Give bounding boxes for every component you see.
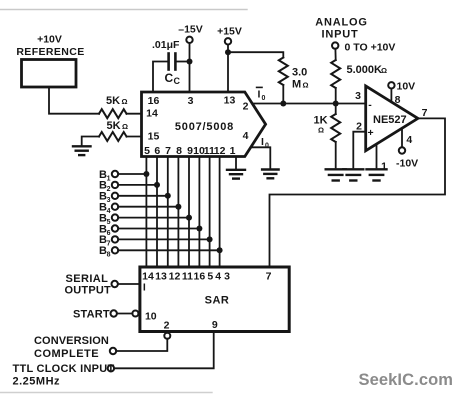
wire bit line 2 (DAC pin to SAR): [156, 157, 158, 268]
wire bit line 1 (DAC pin to SAR): [145, 157, 147, 268]
wire R2 to ground: [82, 137, 99, 146]
terminal analog input: [332, 42, 338, 48]
svg-text:13: 13: [224, 94, 236, 106]
svg-text:6: 6: [107, 230, 111, 237]
value label 5K ohm (R1): [106, 95, 128, 107]
svg-text:0: 0: [262, 95, 266, 102]
input terminal B7: [99, 234, 111, 248]
svg-text:5007/5008: 5007/5008: [175, 121, 234, 133]
svg-text:.01μF: .01μF: [152, 39, 180, 51]
wire -15V to pin 3: [189, 43, 191, 92]
svg-text:COMPLETE: COMPLETE: [34, 348, 99, 360]
wire NE527 pin 2 to ground: [353, 132, 365, 168]
wire bit line 8 (DAC pin to SAR): [219, 157, 221, 268]
svg-text:+: +: [368, 127, 374, 139]
svg-text:3: 3: [188, 95, 194, 107]
resistor R5 1K ohm: [335, 104, 337, 115]
svg-text:4: 4: [107, 208, 111, 215]
wire cap to pin 16: [153, 62, 167, 93]
wire bit line 3 (DAC pin to SAR): [167, 157, 169, 268]
svg-text:7: 7: [165, 145, 171, 157]
svg-text:1: 1: [107, 175, 111, 182]
wire NE527 pin 4 to -10V: [401, 129, 403, 148]
svg-text:14: 14: [146, 108, 158, 120]
value label 1K ohm: [314, 115, 328, 135]
resistor R1 5K ohm: [99, 109, 127, 118]
wire start to pin 10: [117, 313, 132, 315]
svg-text:INPUT: INPUT: [322, 28, 359, 40]
svg-text:ANALOG: ANALOG: [315, 17, 367, 29]
svg-text:3: 3: [107, 197, 111, 204]
svg-text:7: 7: [107, 241, 111, 248]
ground (R5): [326, 168, 346, 170]
svg-text:5K: 5K: [107, 120, 121, 132]
svg-text:SERIAL: SERIAL: [66, 273, 109, 285]
svg-text:11: 11: [182, 271, 193, 283]
wire bit line 7 (DAC pin to SAR): [209, 157, 211, 268]
ground (Io): [262, 168, 279, 170]
wire R3 to node: [282, 85, 284, 104]
svg-text:5: 5: [207, 271, 213, 283]
svg-text:1: 1: [381, 160, 387, 172]
svg-text:REFERENCE: REFERENCE: [16, 46, 84, 58]
svg-text:SAR: SAR: [205, 295, 230, 307]
node B3 junction: [165, 193, 171, 199]
svg-text:12: 12: [169, 271, 181, 283]
wire Io-bar net: [253, 103, 366, 105]
+10V reference box: [22, 60, 77, 88]
resistor R4 5.000K ohm: [331, 60, 340, 88]
ground (DAC pin 1): [227, 169, 245, 171]
svg-text:–15V: –15V: [178, 24, 203, 36]
comparator U2 NE527 body: [366, 86, 418, 151]
node B1 junction: [143, 171, 149, 177]
node B2 junction: [154, 182, 160, 188]
svg-text:5: 5: [144, 145, 150, 157]
svg-text:I: I: [261, 136, 264, 148]
svg-text:START: START: [73, 308, 110, 320]
scan border bottom: [0, 392, 212, 394]
wire NE527 pin 1 to ground: [376, 144, 378, 168]
svg-text:12: 12: [214, 145, 226, 157]
capacitor CC 0.01uF plates: [167, 54, 170, 70]
wire B4 to bit line: [118, 206, 178, 208]
svg-text:10V: 10V: [397, 80, 416, 92]
input terminal B4: [99, 202, 111, 216]
node capacitor junction: [187, 59, 193, 65]
svg-text:C: C: [174, 76, 181, 86]
svg-text:0: 0: [265, 142, 269, 149]
wire B2 to bit line: [118, 184, 157, 186]
svg-text:I: I: [143, 282, 146, 294]
label CONVERSION COMPLETE: [34, 335, 109, 360]
svg-text:8: 8: [176, 145, 182, 157]
svg-text:7: 7: [422, 107, 428, 119]
node B4 junction: [175, 204, 181, 210]
resistor R3 3.0 Mohm: [279, 58, 288, 86]
label Io-bar: [258, 88, 266, 102]
svg-text:4: 4: [406, 134, 412, 146]
terminal conversion complete: [110, 348, 116, 354]
wire reference to R1: [49, 87, 99, 114]
wire B6 to bit line: [118, 228, 199, 230]
svg-text:0 TO +10V: 0 TO +10V: [345, 41, 396, 53]
svg-text:2.25MHz: 2.25MHz: [13, 376, 61, 388]
svg-text:8: 8: [107, 252, 111, 259]
wire B7 to bit line: [118, 238, 209, 240]
node R3 junction: [280, 101, 286, 107]
wire conversion complete to pin 2: [116, 339, 167, 351]
svg-text:SeekIC.com: SeekIC.com: [359, 371, 454, 389]
svg-text:CONVERSION: CONVERSION: [34, 335, 109, 347]
label SERIAL OUTPUT: [65, 273, 111, 296]
wire +15V to pin 13: [227, 45, 229, 93]
svg-text:2: 2: [164, 319, 170, 331]
svg-text:Ω: Ω: [122, 97, 128, 106]
label ANALOG INPUT: [315, 17, 367, 41]
input terminal B5: [99, 212, 111, 226]
wire NE527 pin 8 to +10V: [390, 89, 392, 103]
wire B8 to bit line: [118, 249, 219, 251]
node B6 junction: [196, 226, 202, 232]
svg-text:2: 2: [107, 186, 111, 193]
terminal +15V: [225, 38, 231, 44]
inverting bubble pin 10: [132, 311, 138, 317]
svg-text:Ω: Ω: [318, 126, 324, 135]
value label 5K ohm (R2): [107, 120, 129, 132]
svg-text:13: 13: [155, 271, 167, 283]
svg-text:OUTPUT: OUTPUT: [65, 284, 111, 296]
svg-text:+10V: +10V: [37, 34, 62, 46]
svg-text:Ω: Ω: [303, 81, 309, 90]
terminal 10V: [388, 82, 394, 88]
input terminal B8: [99, 245, 111, 259]
wire R1 to pin 14: [127, 113, 142, 115]
ground (NE527 pin 1): [367, 168, 387, 170]
node B5 junction: [186, 215, 192, 221]
wire bit line 6 (DAC pin to SAR): [198, 157, 200, 268]
wire Io to ground: [251, 147, 270, 169]
wire bit line 5 (DAC pin to SAR): [188, 157, 190, 268]
input terminal B3: [99, 191, 111, 205]
ground (NE527 pin 2): [343, 168, 363, 170]
svg-text:4: 4: [243, 130, 249, 142]
wire R4 to node: [335, 88, 337, 104]
svg-text:9: 9: [212, 319, 218, 331]
wire TTL clock to pin 9: [114, 332, 214, 369]
svg-text:2: 2: [243, 100, 249, 112]
terminal start: [111, 310, 117, 316]
wire bit line 4 (DAC pin to SAR): [177, 157, 179, 268]
node B8 junction: [217, 247, 223, 253]
svg-text:5K: 5K: [106, 95, 120, 107]
svg-text:7: 7: [266, 271, 272, 283]
wire B3 to bit line: [118, 195, 168, 197]
terminal -15V: [186, 37, 192, 43]
ground (left, R2): [73, 145, 91, 147]
svg-text:C: C: [165, 71, 174, 85]
input terminal B6: [99, 223, 111, 237]
wire DAC pin 1 to ground: [235, 157, 237, 170]
svg-text:5: 5: [107, 219, 111, 226]
wire analog input to R4: [334, 49, 336, 60]
svg-text:5.000K: 5.000K: [347, 64, 383, 76]
svg-text:4: 4: [215, 271, 221, 283]
node +15V tee: [225, 49, 231, 55]
svg-text:10: 10: [145, 311, 157, 323]
label Io: [261, 136, 269, 150]
svg-text:3: 3: [355, 90, 361, 102]
svg-text:TTL CLOCK INPUT: TTL CLOCK INPUT: [13, 363, 115, 375]
svg-text:16: 16: [148, 95, 160, 107]
node B7 junction: [207, 236, 213, 242]
svg-text:8: 8: [395, 94, 401, 106]
wire R5 to ground: [335, 142, 337, 168]
svg-text:15: 15: [148, 130, 160, 142]
svg-text:3: 3: [224, 271, 230, 283]
DAC U1 5007/5008 body: [142, 92, 266, 157]
svg-text:3.0: 3.0: [292, 67, 307, 79]
input terminal B2: [99, 180, 111, 194]
svg-text:M: M: [292, 79, 301, 91]
terminal TTL clock: [108, 365, 114, 371]
terminal serial output: [112, 281, 118, 287]
svg-text:1: 1: [230, 145, 236, 157]
svg-text:Ω: Ω: [381, 66, 387, 75]
svg-text:I: I: [258, 88, 261, 100]
wire +15V to R3: [228, 52, 283, 57]
svg-text:-10V: -10V: [396, 158, 418, 170]
node R4/R5 junction: [333, 101, 339, 107]
value label 5.000K ohm: [347, 64, 388, 76]
label CC: [165, 71, 181, 86]
wire serial output: [118, 283, 140, 285]
input terminal B1: [99, 169, 111, 183]
wire NE527 output pin 7 to SAR pin 7: [270, 118, 446, 267]
wire B1 to bit line: [118, 173, 146, 175]
value label 3.0 Mohm: [292, 67, 309, 91]
svg-text:+15V: +15V: [217, 26, 242, 38]
inverting bubble pin 2: [164, 333, 170, 339]
svg-text:16: 16: [194, 271, 206, 283]
svg-text:6: 6: [154, 145, 160, 157]
SAR U3 body: [140, 267, 289, 332]
svg-text:-: -: [368, 99, 372, 111]
terminal -10V: [399, 147, 405, 153]
wire R2 to pin 15: [127, 136, 142, 138]
wire cap to pin 3 node: [177, 61, 190, 63]
svg-text:Ω: Ω: [122, 122, 128, 131]
wire B5 to bit line: [118, 217, 189, 219]
resistor R2 5K ohm: [99, 132, 127, 141]
scan border top: [0, 9, 247, 11]
svg-text:NE527: NE527: [373, 114, 407, 126]
